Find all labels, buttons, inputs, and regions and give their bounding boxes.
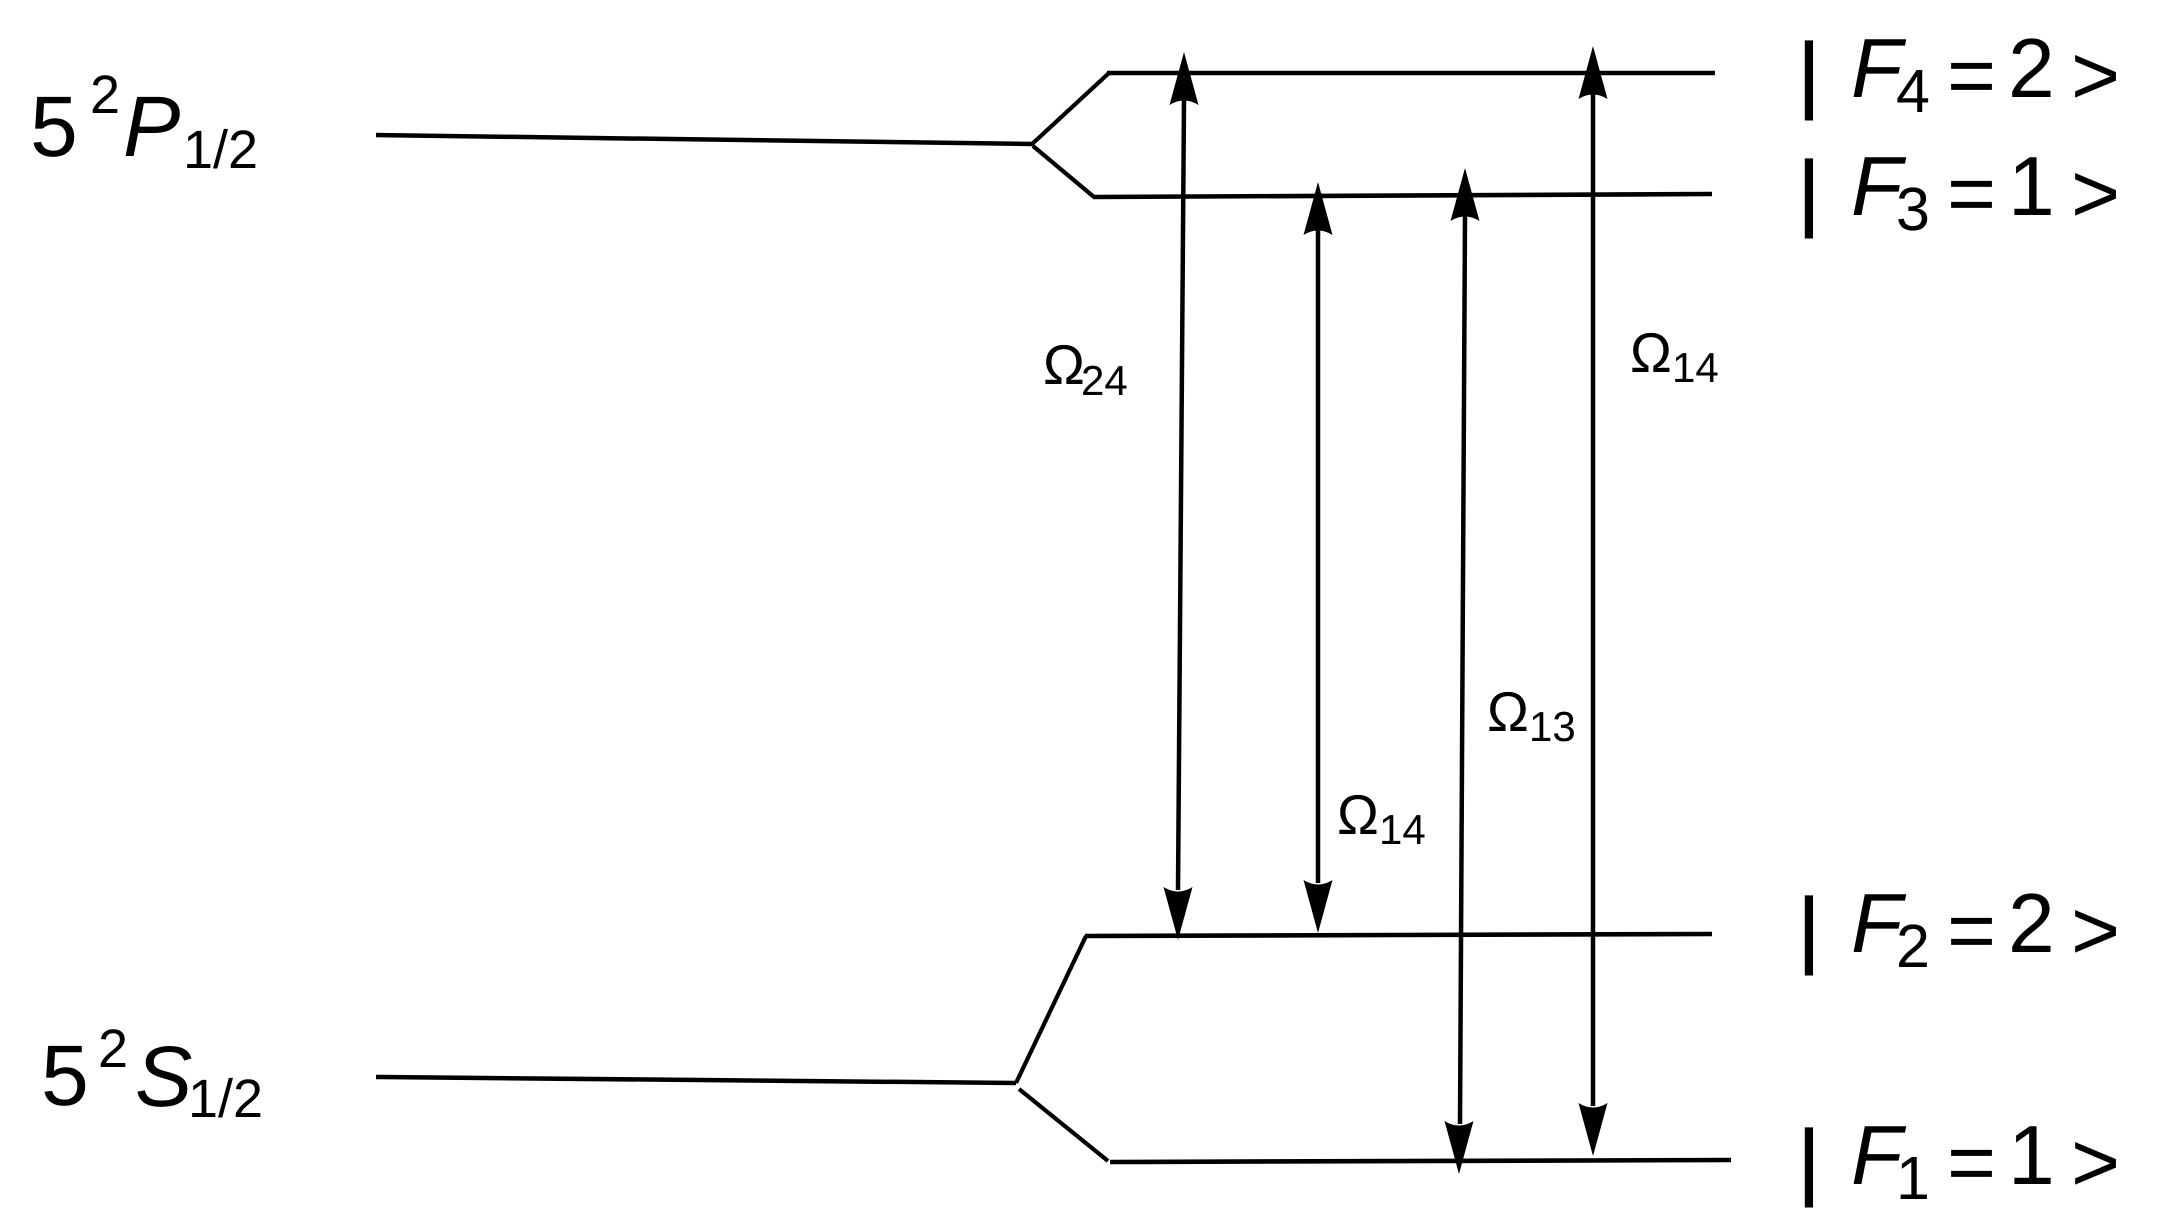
svg-text:14: 14: [1379, 806, 1426, 853]
svg-text:24: 24: [1081, 357, 1128, 404]
ket F1 = 1: [1798, 1108, 2120, 1212]
svg-text:Ω: Ω: [1630, 321, 1672, 384]
label Omega14 top right: [1630, 321, 1719, 391]
arrow Omega14 right (F4 to F1): [1579, 46, 1608, 1156]
svg-text:2: 2: [2008, 876, 2055, 970]
ket F3 = 1: [1798, 139, 2120, 243]
svg-text:5: 5: [30, 79, 78, 175]
svg-text:Ω: Ω: [1043, 333, 1085, 396]
svg-text:|: |: [1798, 26, 1820, 120]
F3 level line: [1093, 194, 1712, 197]
arrow Omega14 left (F3 to F2): [1304, 182, 1333, 933]
svg-text:2: 2: [90, 65, 120, 125]
arrow Omega24 (F4 to F2): [1164, 52, 1199, 940]
ket F4 = 2: [1798, 21, 2120, 125]
F4 level line: [1107, 71, 1715, 76]
svg-text:1: 1: [2008, 1108, 2055, 1202]
svg-text:13: 13: [1529, 703, 1576, 750]
svg-text:|: |: [1798, 881, 1820, 975]
svg-text:1/2: 1/2: [183, 120, 258, 180]
S-state level line: [376, 1077, 1016, 1083]
F1 level line: [1110, 1160, 1731, 1162]
svg-text:1/2: 1/2: [188, 1069, 263, 1129]
term label 5 2P1/2: [30, 65, 258, 180]
svg-text:1: 1: [1896, 1144, 1930, 1212]
svg-text:|: |: [1798, 1113, 1820, 1207]
svg-text:=: =: [1947, 883, 1996, 977]
svg-text:Ω: Ω: [1487, 680, 1529, 743]
svg-text:14: 14: [1672, 344, 1719, 391]
label Omega24: [1043, 333, 1128, 404]
P-state level line: [376, 135, 1032, 144]
svg-text:1: 1: [2008, 139, 2055, 233]
svg-text:3: 3: [1896, 175, 1930, 243]
svg-text:S: S: [135, 1029, 192, 1125]
svg-text:>: >: [2071, 28, 2120, 122]
svg-text:5: 5: [41, 1028, 89, 1124]
svg-text:|: |: [1798, 144, 1820, 238]
S fork lower branch: [1019, 1089, 1108, 1161]
svg-text:>: >: [2071, 1115, 2120, 1209]
P fork lower branch: [1033, 146, 1094, 197]
svg-text:P: P: [123, 79, 180, 175]
svg-text:2: 2: [1896, 912, 1930, 980]
svg-text:=: =: [1947, 1115, 1996, 1209]
svg-text:4: 4: [1896, 57, 1930, 125]
svg-text:2: 2: [2008, 21, 2055, 115]
svg-text:>: >: [2071, 146, 2120, 240]
term label 5 2S1/2: [41, 1019, 263, 1129]
svg-text:>: >: [2071, 883, 2120, 977]
P fork upper branch: [1031, 73, 1109, 145]
S fork upper branch: [1016, 936, 1086, 1083]
label Omega14 bottom: [1337, 783, 1426, 853]
svg-text:=: =: [1947, 28, 1996, 122]
svg-text:Ω: Ω: [1337, 783, 1379, 846]
ket F2 = 2: [1798, 876, 2120, 980]
arrow Omega13 (F3 to F1): [1445, 168, 1480, 1174]
svg-text:=: =: [1947, 146, 1996, 240]
svg-text:2: 2: [98, 1019, 128, 1079]
F2 level line: [1085, 934, 1712, 936]
label Omega13: [1487, 680, 1576, 750]
